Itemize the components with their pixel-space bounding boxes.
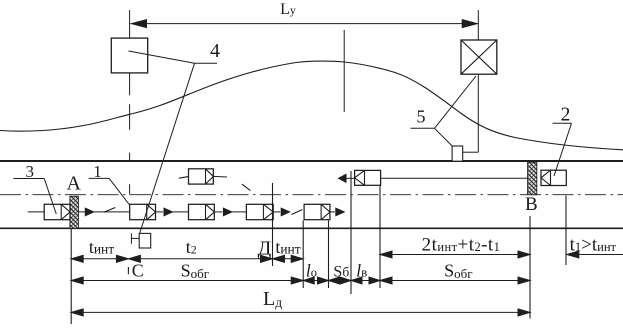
svg-text:Sобг: Sобг <box>444 261 472 282</box>
svg-text:С: С <box>132 261 144 281</box>
svg-text:А: А <box>66 172 81 194</box>
svg-text:В: В <box>525 194 538 215</box>
svg-text:lо: lо <box>306 260 317 280</box>
svg-text:1: 1 <box>93 162 102 181</box>
svg-text:Lд: Lд <box>263 288 282 310</box>
svg-text:Д: Д <box>258 238 272 260</box>
svg-text:t1>tинт: t1>tинт <box>570 234 617 255</box>
svg-text:Sобг: Sобг <box>181 261 209 282</box>
svg-text:2: 2 <box>561 105 571 126</box>
svg-text:4: 4 <box>210 40 220 62</box>
svg-text:Sб: Sб <box>333 263 349 280</box>
svg-text:tинт: tинт <box>89 237 114 257</box>
svg-text:5: 5 <box>417 106 426 126</box>
svg-text:tинт: tинт <box>275 237 300 257</box>
svg-text:t2: t2 <box>186 237 197 257</box>
svg-text:Lу: Lу <box>280 1 296 18</box>
svg-text:lв: lв <box>356 260 367 280</box>
svg-text:2tинт+t2-t1: 2tинт+t2-t1 <box>422 234 501 255</box>
svg-text:3: 3 <box>25 162 34 181</box>
